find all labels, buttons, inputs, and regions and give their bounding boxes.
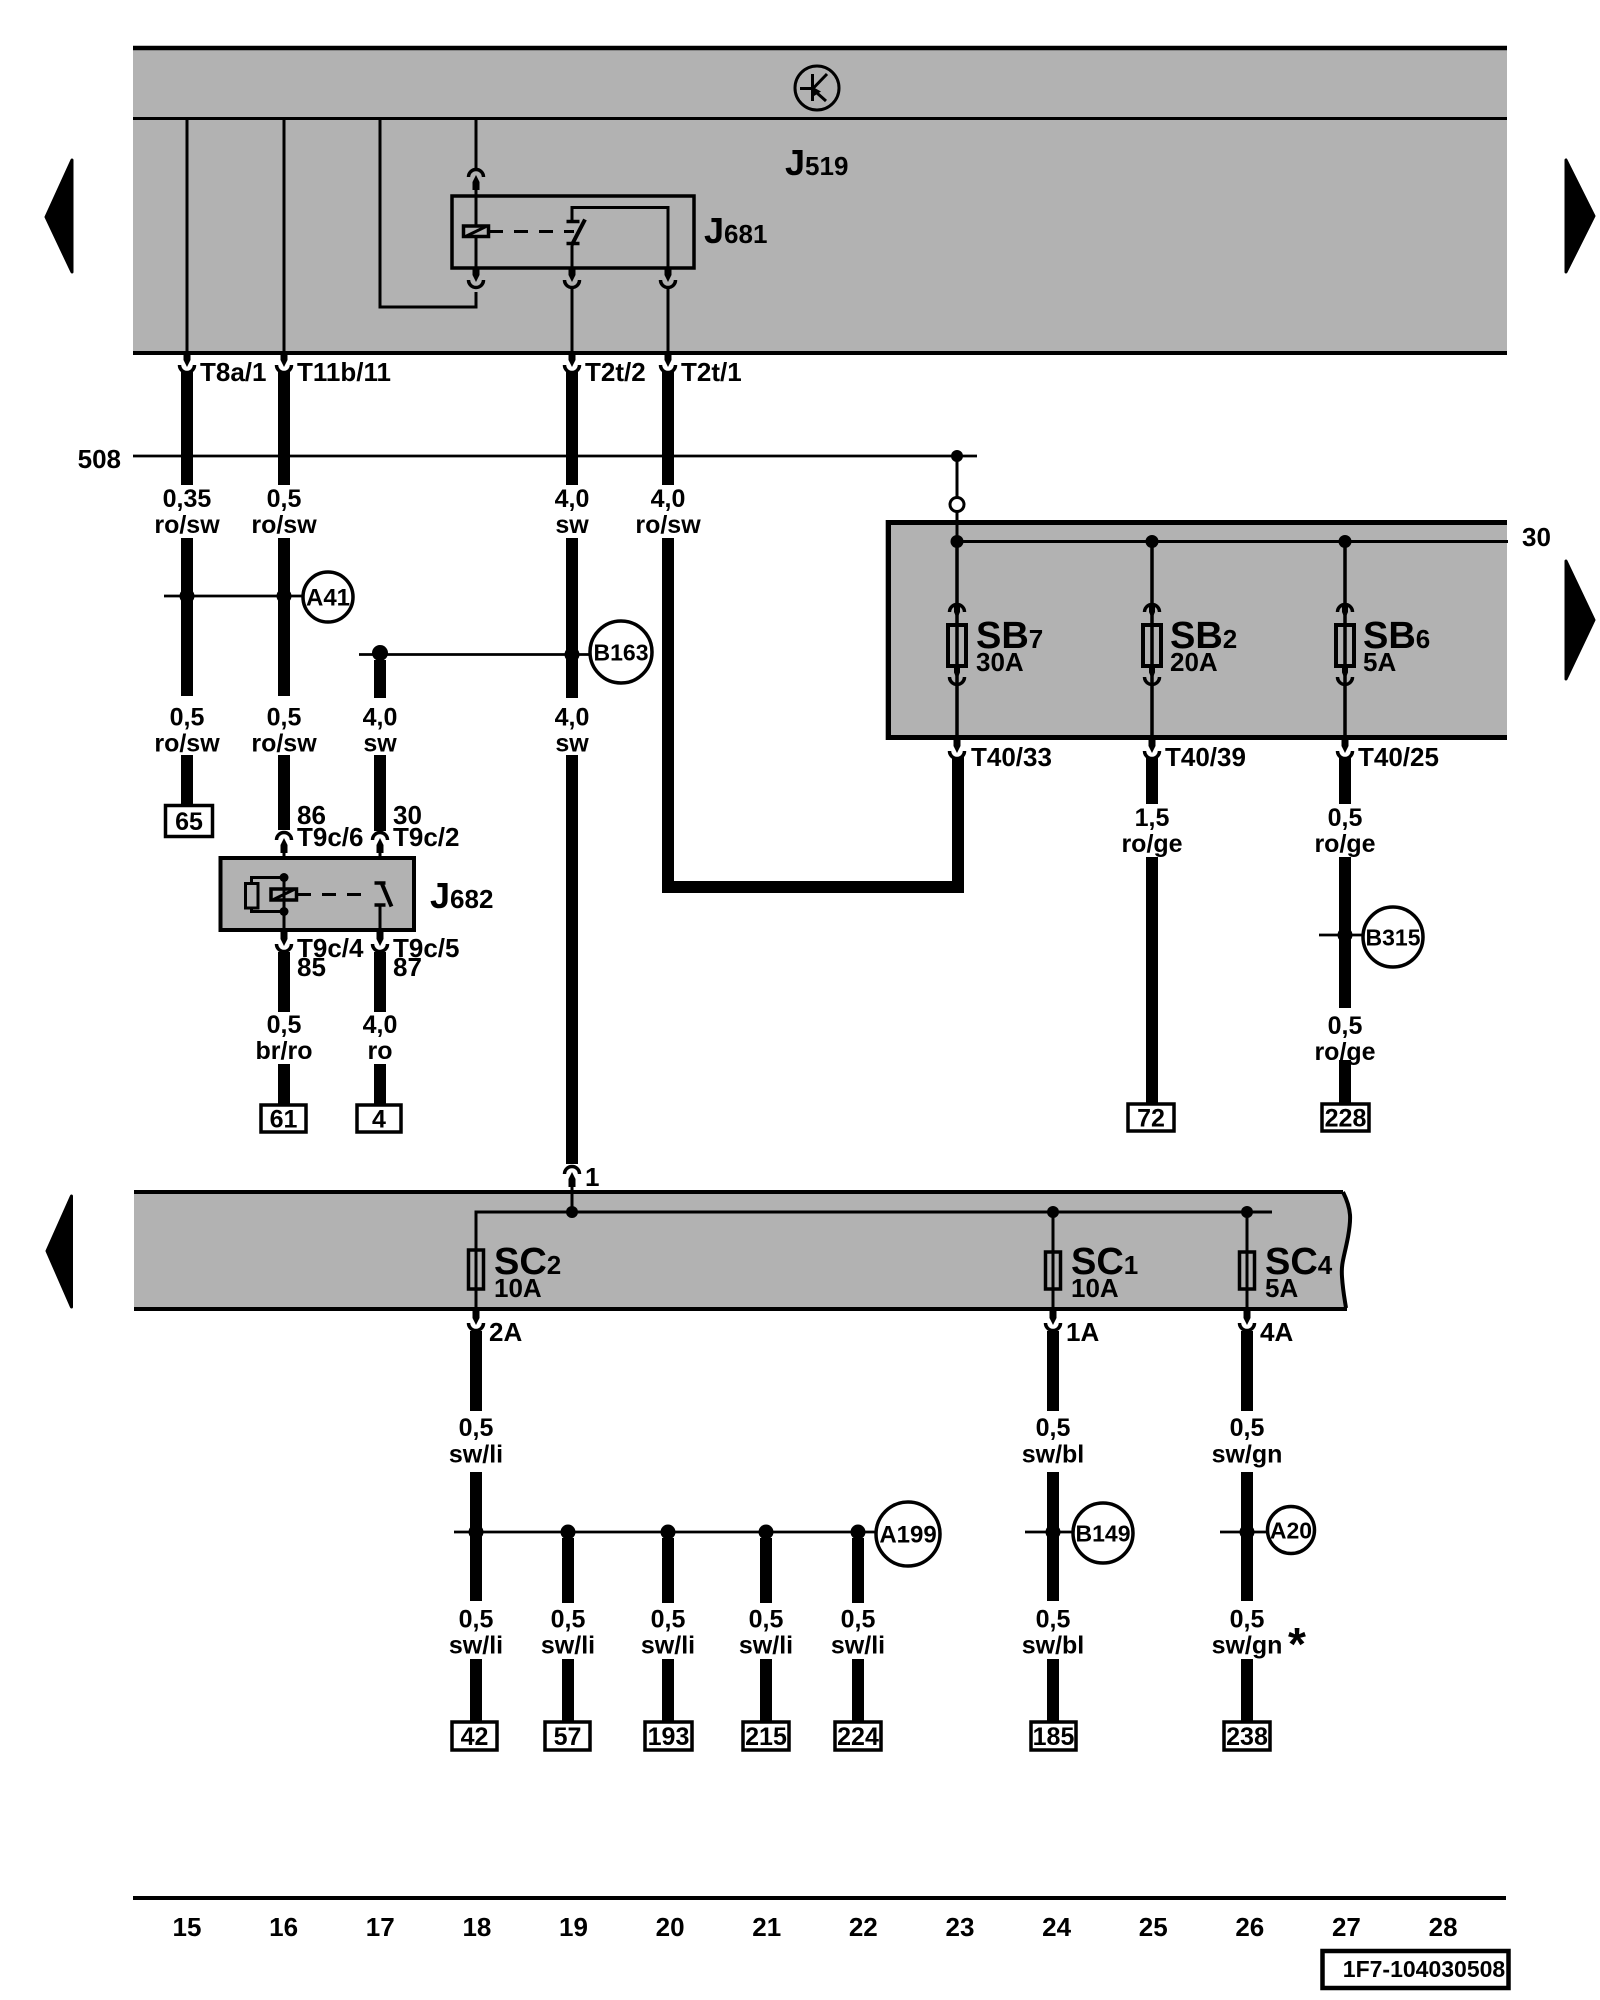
svg-text:28: 28 [1429, 1912, 1458, 1942]
svg-text:5A: 5A [1265, 1273, 1298, 1303]
svg-text:ro/sw: ro/sw [251, 730, 317, 758]
terminal arrow J681 coil top pin [469, 170, 484, 191]
svg-text:85: 85 [297, 952, 326, 982]
terminal T11b/11 exit arrow [277, 352, 292, 373]
svg-text:ro: ro [368, 1037, 393, 1065]
terminal arrow J681 switch pin [565, 267, 580, 288]
wire 4,0 ro upper segment [374, 952, 386, 1012]
svg-text:30A: 30A [976, 647, 1024, 677]
junction dot SB7 on 30 bus [951, 535, 964, 548]
wire 4,0 ro/sw routing corner to SB box T40/33 [668, 757, 958, 887]
node B149 circle [1073, 1503, 1133, 1563]
SB box bottom border [886, 735, 1507, 740]
page nav arrow right top [1566, 160, 1594, 272]
wire 0,5 sw/bl lower segment [1047, 1659, 1059, 1722]
terminal arrow 2A [469, 1310, 484, 1331]
fuse SC2 [475, 1250, 478, 1308]
junction dot node 508 feed [951, 450, 963, 462]
svg-text:42: 42 [461, 1723, 489, 1751]
wire junction link B315 [1319, 934, 1363, 937]
wire 0,5 br/ro lower segment [278, 1064, 290, 1105]
wire 0,5 ro/ge upper segment [1339, 758, 1351, 804]
wire 0,5 ro/sw upper segment [278, 372, 290, 485]
wire 4,0 sw middle segment [566, 538, 578, 698]
svg-text:30: 30 [1522, 522, 1551, 552]
wire 0,5 sw/li branch segment x858 [852, 1538, 864, 1603]
svg-text:0,5: 0,5 [1230, 1606, 1265, 1634]
wire J681 coil top pin inside box [475, 188, 478, 227]
terminal arrow J682 pin T9c/4 [277, 931, 292, 952]
svg-text:22: 22 [849, 1912, 878, 1942]
node 30 bus line [958, 540, 1508, 543]
wire J682 switch to pin 87 [379, 905, 382, 930]
wire 4,0 sw long segment to SC box [566, 755, 578, 1164]
J519 box inner bus line [133, 117, 1507, 120]
svg-text:0,5: 0,5 [459, 1606, 494, 1634]
wire junction link A41 [164, 595, 303, 598]
svg-text:193: 193 [648, 1723, 690, 1751]
junction dot col21 A199 [759, 1525, 774, 1540]
fuse SB6 [1336, 541, 1354, 738]
svg-text:23: 23 [946, 1912, 975, 1942]
J519 box bottom border [133, 351, 1507, 355]
SC box bottom border [134, 1307, 1347, 1311]
wire 1,5 ro/ge upper segment [1146, 758, 1158, 804]
wire 4,0 ro/sw upper segment [662, 372, 674, 485]
svg-text:T40/33: T40/33 [971, 742, 1052, 772]
svg-text:4,0: 4,0 [555, 485, 590, 513]
terminal 65 box [166, 806, 213, 837]
relay J681 switch contact [567, 220, 586, 246]
junction dot B315 [1338, 928, 1353, 943]
svg-text:0,5: 0,5 [1036, 1414, 1071, 1442]
svg-text:0,5: 0,5 [1328, 804, 1363, 832]
wire J681 coil top pin above box [475, 119, 478, 169]
wire 0,5 sw/li middle segment [470, 1472, 482, 1601]
junction start dot wire to J682 pin 30 [372, 645, 388, 661]
svg-text:sw/li: sw/li [541, 1632, 595, 1660]
wire 0,5 sw/li lower segment to 57 [562, 1659, 574, 1722]
wire to terminal 65 segment [181, 755, 193, 806]
wire into J682 pin 30 [379, 852, 382, 883]
svg-text:1,5: 1,5 [1135, 804, 1170, 832]
junction dot col19 A199 [561, 1525, 576, 1540]
junction dot SB6 on 30 bus [1339, 535, 1352, 548]
wire J681 switch pin to box exit T2t/2 [571, 287, 574, 354]
svg-text:ro/sw: ro/sw [154, 511, 220, 539]
wire 4,0 ro/sw long segment [662, 538, 674, 881]
svg-text:T9c/2: T9c/2 [393, 822, 460, 852]
fuse box SC body [134, 1192, 1350, 1308]
page nav arrow left top [46, 160, 72, 272]
svg-text:0,5: 0,5 [459, 1414, 494, 1442]
svg-text:ro/sw: ro/sw [635, 511, 701, 539]
wire 0,5 sw/gn upper segment [1241, 1331, 1253, 1411]
svg-text:2A: 2A [489, 1317, 522, 1347]
svg-text:0,5: 0,5 [841, 1606, 876, 1634]
wire J519 internal to T8a/1 [186, 119, 189, 354]
junction dot SB2 on 30 bus [1146, 535, 1159, 548]
wire node 508 to SB box upper [956, 456, 959, 498]
svg-text:18: 18 [462, 1912, 491, 1942]
wire J682 coil vertical [283, 877, 286, 912]
svg-text:508: 508 [78, 444, 121, 474]
terminal T2t/1 exit arrow [661, 352, 676, 373]
svg-text:26: 26 [1235, 1912, 1264, 1942]
terminal arrow J681 coil bottom pin [469, 267, 484, 288]
svg-text:ro/sw: ro/sw [154, 730, 220, 758]
svg-text:T2t/2: T2t/2 [585, 357, 646, 387]
svg-text:T9c/6: T9c/6 [297, 822, 364, 852]
fuse SC1 [1052, 1212, 1055, 1308]
wire 0,5 sw/gn lower segment [1241, 1659, 1253, 1722]
svg-text:T2t/1: T2t/1 [681, 357, 742, 387]
wire 4,0 sw to J682 upper segment [374, 660, 386, 698]
node B315 circle [1363, 907, 1423, 967]
wire 0,5 sw/li lower segment to 215 [760, 1659, 772, 1722]
svg-text:sw/gn: sw/gn [1212, 1441, 1283, 1469]
wire into J682 pin 86 [283, 852, 286, 877]
ground 61 box [261, 1105, 306, 1132]
svg-text:0,5: 0,5 [749, 1606, 784, 1634]
junction dot on 4,0 sw wire B163 [565, 647, 580, 662]
resistor parallel to J682 coil [252, 878, 285, 912]
wire 0,5 sw/li branch segment x568 [562, 1538, 574, 1603]
svg-text:sw/gn: sw/gn [1212, 1632, 1283, 1660]
terminal arrow J682 pin T9c/5 [373, 931, 388, 952]
SC box torn right edge [1342, 1192, 1350, 1308]
wire J681 switch to bottom pin [571, 246, 574, 269]
wire 0,5 sw/bl middle segment [1047, 1472, 1059, 1601]
svg-text:24: 24 [1042, 1912, 1071, 1942]
terminal arrow 4A [1240, 1310, 1255, 1331]
svg-text:57: 57 [554, 1723, 582, 1751]
ground 57 box [545, 1722, 590, 1750]
wire 0,35 ro/sw upper segment [181, 372, 193, 485]
svg-text:br/ro: br/ro [256, 1037, 313, 1065]
ground 238 box [1224, 1722, 1270, 1750]
wire J519 internal feed to relay J681 coil [380, 119, 476, 307]
svg-text:4,0: 4,0 [555, 704, 590, 732]
svg-text:B315: B315 [1366, 925, 1421, 951]
terminal arrow SC pin 1 [565, 1167, 580, 1188]
svg-text:sw/bl: sw/bl [1022, 1441, 1085, 1469]
svg-text:*: * [1288, 1618, 1306, 1670]
svg-text:16: 16 [269, 1912, 298, 1942]
wire 0,5 sw/li lower segment to 193 [662, 1659, 674, 1722]
terminal 72 box [1128, 1104, 1174, 1131]
relay J682 switch contact [375, 883, 392, 907]
svg-text:sw/li: sw/li [641, 1632, 695, 1660]
junction dot col16 A41 [277, 589, 292, 604]
wire into SC box pin 1 [571, 1186, 574, 1192]
terminal 4 box [357, 1105, 401, 1132]
connector circle on SB feed wire [950, 498, 964, 512]
terminal arrow 1A [1046, 1310, 1061, 1331]
fuse SC4 [1246, 1212, 1249, 1308]
wire 0,5 ro/ge bottom segment [1339, 1060, 1351, 1104]
wire 0,5 sw/li upper segment [470, 1331, 482, 1411]
relay J682 coil [271, 889, 297, 900]
junction dot A20 [1240, 1525, 1255, 1540]
svg-text:17: 17 [366, 1912, 395, 1942]
svg-text:20: 20 [656, 1912, 685, 1942]
node A20 circle [1268, 1507, 1315, 1554]
wire 0,5 ro/sw middle segment col16 [278, 538, 290, 696]
svg-text:1A: 1A [1066, 1317, 1099, 1347]
terminal arrow J681 output pin [661, 267, 676, 288]
wire 0,5 sw/li lower segment to 42 [470, 1659, 482, 1722]
SC box top border [134, 1190, 1343, 1194]
fuse box SB body [885, 520, 1507, 740]
junction dot SC1 on SC bus [1047, 1206, 1059, 1218]
svg-text:0,5: 0,5 [1328, 1012, 1363, 1040]
wire 0,5 ro/sw middle segment col15 [181, 538, 193, 696]
terminal 228 box [1322, 1104, 1369, 1131]
svg-text:ro/sw: ro/sw [251, 511, 317, 539]
svg-text:sw: sw [363, 730, 397, 758]
node 508 wire [133, 455, 977, 458]
relay J682 box [221, 858, 415, 930]
junction dot SC4 on SC bus [1241, 1206, 1253, 1218]
svg-text:5A: 5A [1363, 647, 1396, 677]
wire to J682 pin 30 segment [374, 755, 386, 831]
svg-text:B163: B163 [594, 640, 649, 666]
svg-text:238: 238 [1226, 1723, 1268, 1751]
junction dot pin1 on SC bus [566, 1206, 578, 1218]
svg-text:0,5: 0,5 [1036, 1606, 1071, 1634]
svg-text:61: 61 [270, 1106, 298, 1134]
svg-text:sw: sw [555, 730, 589, 758]
junction dot col22 A199 [851, 1525, 866, 1540]
relay J681 coil [464, 226, 489, 237]
terminal arrow T40/39 [1145, 738, 1160, 759]
wire to J682 pin 86 segment [278, 755, 290, 830]
svg-text:sw: sw [555, 511, 589, 539]
ground 224 box [835, 1722, 881, 1750]
junction dot J682 coil top [280, 873, 289, 882]
wire 0,5 sw/gn middle segment [1241, 1472, 1253, 1601]
wire junction link A20 [1220, 1531, 1268, 1534]
svg-text:72: 72 [1137, 1105, 1165, 1133]
wire 4,0 sw upper segment [566, 372, 578, 485]
svg-text:ro/ge: ro/ge [1314, 830, 1375, 858]
svg-text:87: 87 [393, 952, 422, 982]
svg-text:27: 27 [1332, 1912, 1361, 1942]
svg-text:sw/li: sw/li [739, 1632, 793, 1660]
wire junction link B163 [359, 653, 592, 656]
svg-text:sw/li: sw/li [449, 1632, 503, 1660]
wire 0,5 br/ro upper segment [278, 952, 290, 1012]
relay J681 box [452, 196, 694, 268]
control unit box J519 body [133, 46, 1507, 355]
wire J681 coil bottom pin inside box [475, 237, 478, 269]
wire J519 internal to T11b/11 [283, 119, 286, 354]
node A199 circle [876, 1502, 940, 1566]
svg-text:228: 228 [1325, 1105, 1367, 1133]
ground 185 box [1031, 1722, 1076, 1750]
svg-text:4,0: 4,0 [363, 704, 398, 732]
wire pin 1 to SC bus [571, 1192, 574, 1212]
svg-text:0,5: 0,5 [651, 1606, 686, 1634]
svg-text:185: 185 [1033, 1723, 1075, 1751]
page nav arrow left bottom [47, 1196, 72, 1307]
dashed actuation line J681 [489, 230, 574, 233]
svg-text:0,5: 0,5 [551, 1606, 586, 1634]
svg-text:15: 15 [173, 1912, 202, 1942]
current track scale line [133, 1896, 1506, 1900]
svg-text:T40/39: T40/39 [1165, 742, 1246, 772]
junction dot B149 [1046, 1525, 1061, 1540]
wire 1,5 ro/ge lower segment [1146, 857, 1158, 1104]
svg-text:sw/li: sw/li [449, 1441, 503, 1469]
terminal T8a/1 exit arrow [180, 352, 195, 373]
SB box top border [886, 520, 1507, 525]
svg-text:10A: 10A [494, 1273, 542, 1303]
dashed actuation line J682 [297, 893, 371, 896]
diagram part number box [1323, 1951, 1509, 1988]
wire J681 output pin to box exit T2t/1 [667, 287, 670, 354]
diagnostic K-line symbol in circle [795, 66, 839, 110]
wire 0,5 ro/ge middle segment [1339, 857, 1351, 1008]
terminal arrow J682 pin T9c/6 [277, 833, 292, 854]
svg-text:A199: A199 [879, 1522, 936, 1549]
J519 box top border [133, 46, 1507, 51]
svg-text:215: 215 [745, 1723, 787, 1751]
node A41 circle [303, 572, 353, 622]
wire junction link B149 [1025, 1531, 1073, 1534]
terminal arrow T40/33 [950, 738, 965, 759]
wire into SB box to 30 bus [956, 511, 959, 541]
ground 193 box [645, 1722, 692, 1750]
node B163 circle [590, 621, 652, 683]
wire J682 coil to pin 85 [283, 911, 286, 930]
svg-text:B149: B149 [1076, 1521, 1131, 1547]
SB box left border [886, 520, 891, 740]
ground 215 box [743, 1722, 789, 1750]
wire junction link A199 [454, 1531, 876, 1534]
svg-text:4: 4 [372, 1106, 386, 1134]
svg-text:1F7-104030508: 1F7-104030508 [1343, 1956, 1506, 1982]
svg-text:4,0: 4,0 [651, 485, 686, 513]
junction dot col18 A199 [469, 1525, 484, 1540]
svg-text:21: 21 [752, 1912, 781, 1942]
svg-text:0,5: 0,5 [267, 704, 302, 732]
svg-text:65: 65 [175, 808, 203, 836]
wire 0,5 sw/li lower segment to 224 [852, 1659, 864, 1722]
SC box internal bus wire [476, 1212, 1272, 1250]
svg-text:T8a/1: T8a/1 [200, 357, 267, 387]
wire J681 internal top link [572, 208, 668, 269]
terminal arrow T40/25 [1338, 738, 1353, 759]
page nav arrow right middle [1566, 561, 1594, 679]
wire 0,5 sw/bl upper segment [1047, 1331, 1059, 1411]
svg-text:ro/ge: ro/ge [1121, 830, 1182, 858]
fuse SB7 [948, 541, 966, 738]
terminal arrow J682 pin T9c/2 [373, 833, 388, 854]
svg-text:A41: A41 [306, 585, 350, 612]
terminal T2t/2 exit arrow [565, 352, 580, 373]
svg-text:19: 19 [559, 1912, 588, 1942]
fuse SB2 [1143, 541, 1161, 738]
svg-text:10A: 10A [1071, 1273, 1119, 1303]
svg-text:224: 224 [837, 1723, 879, 1751]
svg-text:0,35: 0,35 [163, 485, 212, 513]
svg-text:T40/25: T40/25 [1358, 742, 1439, 772]
wire 0,5 sw/li branch segment x668 [662, 1538, 674, 1603]
svg-text:sw/bl: sw/bl [1022, 1632, 1085, 1660]
svg-text:T11b/11: T11b/11 [297, 357, 391, 387]
junction dot col20 A199 [661, 1525, 676, 1540]
ground 42 box [452, 1722, 497, 1750]
svg-text:0,5: 0,5 [170, 704, 205, 732]
wire 4,0 ro lower segment [374, 1064, 386, 1105]
svg-text:4A: 4A [1260, 1317, 1293, 1347]
svg-text:sw/li: sw/li [831, 1632, 885, 1660]
svg-text:20A: 20A [1170, 647, 1218, 677]
svg-text:4,0: 4,0 [363, 1011, 398, 1039]
svg-text:A20: A20 [1270, 1518, 1312, 1544]
svg-text:25: 25 [1139, 1912, 1168, 1942]
svg-text:0,5: 0,5 [1230, 1414, 1265, 1442]
svg-text:1: 1 [585, 1162, 599, 1192]
junction dot col15 A41 [180, 589, 195, 604]
svg-text:0,5: 0,5 [267, 485, 302, 513]
wire 0,5 sw/li branch segment x766 [760, 1538, 772, 1603]
junction dot J682 coil bottom [280, 907, 289, 916]
svg-text:0,5: 0,5 [267, 1011, 302, 1039]
